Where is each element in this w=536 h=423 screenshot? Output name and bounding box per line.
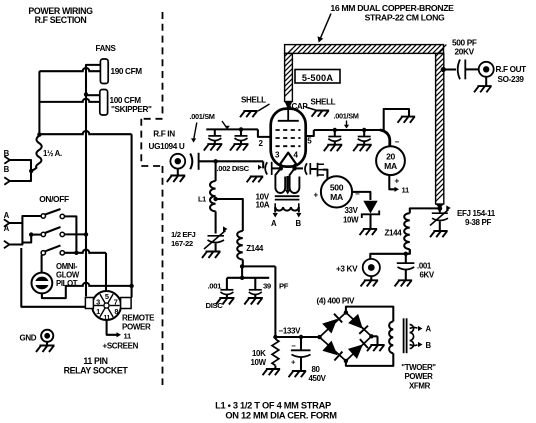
svg-text:80: 80 <box>312 365 321 374</box>
svg-text:100 CFM: 100 CFM <box>110 96 142 105</box>
wire to tube pin 2 <box>258 129 271 137</box>
svg-text:R.F IN: R.F IN <box>153 129 175 138</box>
svg-text:SHELL: SHELL <box>241 96 266 105</box>
inductor L1 <box>215 161 217 181</box>
wire bottom rail to socket <box>21 248 86 307</box>
wire bridge to transformer <box>346 307 393 322</box>
fuse F1 1-1/2 A <box>31 136 42 171</box>
svg-text:UG1094 U: UG1094 U <box>149 142 185 151</box>
variable capacitor C3 EFJ 154-11 9-38PF <box>439 208 441 212</box>
wire fan2 lower lead with hop <box>39 99 99 102</box>
zener D5 33V 10W <box>363 201 377 214</box>
svg-text:−133V: −133V <box>279 326 302 335</box>
svg-text:1½ A.: 1½ A. <box>43 149 62 158</box>
svg-text:5-500A: 5-500A <box>302 73 333 83</box>
svg-text:ON/OFF: ON/OFF <box>39 194 69 204</box>
wire tap to Z144 <box>216 199 243 231</box>
fan B1 190 CFM <box>100 59 108 84</box>
strap left band <box>285 53 293 101</box>
bridge rectifier CR1-CR4 <box>320 313 372 361</box>
svg-text:(4) 400 PIV: (4) 400 PIV <box>317 296 355 305</box>
svg-text:.001: .001 <box>208 282 223 291</box>
svg-text:39: 39 <box>263 282 271 291</box>
svg-text:7: 7 <box>114 298 118 307</box>
svg-text:REMOTE: REMOTE <box>122 314 155 323</box>
svg-text:1: 1 <box>96 307 100 316</box>
transformer T2 twoer secondary <box>389 322 393 354</box>
inductor Z144 plate choke <box>409 249 411 254</box>
transformer secondary <box>275 203 299 207</box>
pilot lamp DS1 omni-glow <box>41 255 43 272</box>
diode CR3 <box>322 341 337 356</box>
svg-text:R.F SECTION: R.F SECTION <box>35 15 87 25</box>
svg-text:20KV: 20KV <box>455 47 475 57</box>
wire up and over ground <box>384 109 409 130</box>
T2 core <box>403 318 405 353</box>
diode CR4 <box>348 344 363 359</box>
svg-text:6KV: 6KV <box>420 271 435 280</box>
wire fan1 lower lead with hop <box>39 68 100 71</box>
wire A terminals to switches <box>9 216 41 223</box>
svg-text:GND: GND <box>20 334 37 343</box>
svg-text:POWER: POWER <box>404 372 433 381</box>
svg-text:RELAY SOCKET: RELAY SOCKET <box>64 366 129 376</box>
svg-text:MA: MA <box>330 192 343 202</box>
svg-text:"TWOER": "TWOER" <box>401 363 436 372</box>
junction fan2 <box>84 92 88 96</box>
wire cap pair header <box>241 266 243 277</box>
svg-text:Z144: Z144 <box>246 244 264 253</box>
meter M1 500 MA <box>321 176 352 207</box>
ground of .002 disc <box>247 177 264 183</box>
fan B2 100 CFM skipper <box>100 90 108 116</box>
svg-text:POWER: POWER <box>122 322 151 331</box>
svg-text:A: A <box>426 325 432 334</box>
wire socket pin 11 arrow <box>107 320 117 335</box>
svg-text:Z144: Z144 <box>385 228 403 237</box>
svg-text:33V: 33V <box>345 206 359 215</box>
svg-text:+: + <box>395 177 400 186</box>
svg-text:XFMR: XFMR <box>409 381 431 390</box>
junction strap EFJ <box>437 206 442 211</box>
T2 primary leads to A B <box>410 325 414 349</box>
svg-text:8: 8 <box>114 307 118 316</box>
svg-text:+3 KV: +3 KV <box>336 264 358 273</box>
wire tube pins 3,4 down <box>280 164 282 168</box>
label 5-500A boxed <box>295 70 340 84</box>
svg-text:1/2 EFJ: 1/2 EFJ <box>171 230 196 239</box>
wire S1b out to bus <box>65 233 87 235</box>
svg-text:5: 5 <box>105 292 109 301</box>
tube anode <box>287 109 289 121</box>
svg-text:EFJ 154-11: EFJ 154-11 <box>457 209 496 218</box>
junction socket right feed <box>129 284 133 288</box>
wire fan1 upper lead to bus <box>86 65 100 68</box>
svg-text:.001/SM: .001/SM <box>334 112 359 121</box>
wire bridge right to ground <box>371 335 377 337</box>
switch S1a <box>41 214 45 218</box>
tube grids dashed <box>276 130 301 146</box>
svg-text:L1 • 3 1/2 T OF 4 MM STRAP: L1 • 3 1/2 T OF 4 MM STRAP <box>215 401 331 411</box>
wire pilot bottom to socket feed <box>42 286 66 298</box>
wire fan2 upper lead <box>86 94 100 96</box>
junction L1 tap <box>213 197 217 201</box>
wire S1a out <box>65 216 77 252</box>
svg-text:B: B <box>4 165 10 174</box>
svg-text:+SCREEN: +SCREEN <box>103 341 139 350</box>
junction Z144 bottom <box>240 264 244 268</box>
tube V1 5-500A envelope <box>271 109 306 167</box>
svg-text:DISC: DISC <box>206 301 224 310</box>
resistor R1 10K 10W <box>272 339 279 365</box>
junction -133V <box>273 335 277 339</box>
svg-text:11: 11 <box>124 331 132 340</box>
capacitor .001 disc grid <box>226 278 228 290</box>
svg-text:SHELL: SHELL <box>311 98 336 107</box>
tube cathode filament <box>280 153 296 165</box>
arrow to strap <box>321 14 332 39</box>
svg-text:3: 3 <box>96 298 100 307</box>
svg-text:A: A <box>271 219 277 228</box>
svg-text:11: 11 <box>402 186 410 195</box>
svg-text:"SKIPPER": "SKIPPER" <box>111 105 152 114</box>
svg-text:190 CFM: 190 CFM <box>111 67 143 76</box>
diode CR2 <box>348 314 363 329</box>
svg-text:450V: 450V <box>309 374 327 383</box>
svg-text:−: − <box>355 190 360 199</box>
svg-text:B: B <box>296 219 302 228</box>
wire rf in to L1 tap <box>199 160 264 162</box>
wire 500MA minus to zener <box>352 191 357 193</box>
svg-text:B: B <box>426 341 432 350</box>
svg-text:.001: .001 <box>417 261 432 270</box>
svg-text:A: A <box>4 224 10 233</box>
capacitor 39 PF <box>254 278 256 290</box>
connector J2 RF OUT SO-239 <box>465 68 478 70</box>
meter M2 20 MA <box>380 130 390 146</box>
svg-text:500: 500 <box>330 183 344 193</box>
svg-text:.001/SM: .001/SM <box>190 112 215 121</box>
capacitor .001 6KV <box>405 254 407 263</box>
svg-text:PF: PF <box>279 282 289 291</box>
strap right band <box>436 53 444 204</box>
svg-text:.002 DISC: .002 DISC <box>217 164 250 173</box>
junction L1 top <box>213 159 217 163</box>
diode CR1 <box>322 319 337 334</box>
wire bus vertical <box>85 65 87 297</box>
wire tube pin5 to hv bus <box>306 130 314 136</box>
svg-text:167-22: 167-22 <box>171 239 193 248</box>
divider dashed line <box>141 12 162 385</box>
junction fuse top <box>37 132 41 136</box>
wire Z144 plate to strap <box>410 208 440 213</box>
svg-text:ON 12 MM DIA CER. FORM: ON 12 MM DIA CER. FORM <box>225 410 337 420</box>
svg-text:+: + <box>314 191 319 200</box>
svg-text:L1: L1 <box>198 195 206 204</box>
switch S1b <box>41 232 45 236</box>
wire right drop to socket <box>131 134 133 297</box>
svg-text:MA: MA <box>384 161 397 171</box>
svg-text:10W: 10W <box>251 358 267 367</box>
svg-text:16 MM DUAL COPPER-BRONZE: 16 MM DUAL COPPER-BRONZE <box>330 3 454 13</box>
inductor Z144 grid <box>237 231 243 260</box>
transformer core <box>275 195 300 197</box>
transformer T1 filament 10V 10A <box>275 168 285 193</box>
svg-text:11 PIN: 11 PIN <box>83 356 107 366</box>
svg-text:−: − <box>395 138 400 147</box>
switch S1c <box>41 251 45 255</box>
capacitor cathode right + feedthru to 500MA <box>295 167 303 169</box>
relay socket 11-pin <box>92 291 121 320</box>
capacitor C4 80uF 450V <box>299 335 303 339</box>
svg-text:FANS: FANS <box>96 44 117 53</box>
wire S1c out <box>65 249 107 252</box>
wire plate feed to +3KV <box>409 249 411 254</box>
svg-text:SO-239: SO-239 <box>498 75 525 84</box>
wire Z144 bottom to -133V rail <box>242 265 275 267</box>
svg-text:STRAP-22 CM LONG: STRAP-22 CM LONG <box>365 13 445 23</box>
variable capacitor 1/2 EFJ 167-22 <box>215 211 217 233</box>
svg-text:10K: 10K <box>252 349 266 358</box>
svg-text:9-38 PF: 9-38 PF <box>465 218 491 227</box>
wire left rail <box>38 71 40 134</box>
wire -133V rail <box>275 336 319 338</box>
svg-text:20: 20 <box>386 152 395 162</box>
svg-text:10W: 10W <box>343 216 359 225</box>
junction B terminals <box>29 169 33 173</box>
wire line to relay with hop <box>39 131 131 134</box>
strap 16mm copper-bronze top <box>285 45 444 54</box>
svg-text:10A: 10A <box>256 201 270 210</box>
svg-text:R.F OUT: R.F OUT <box>496 65 527 74</box>
capacitor jack coupling .001/SM <box>190 154 192 170</box>
